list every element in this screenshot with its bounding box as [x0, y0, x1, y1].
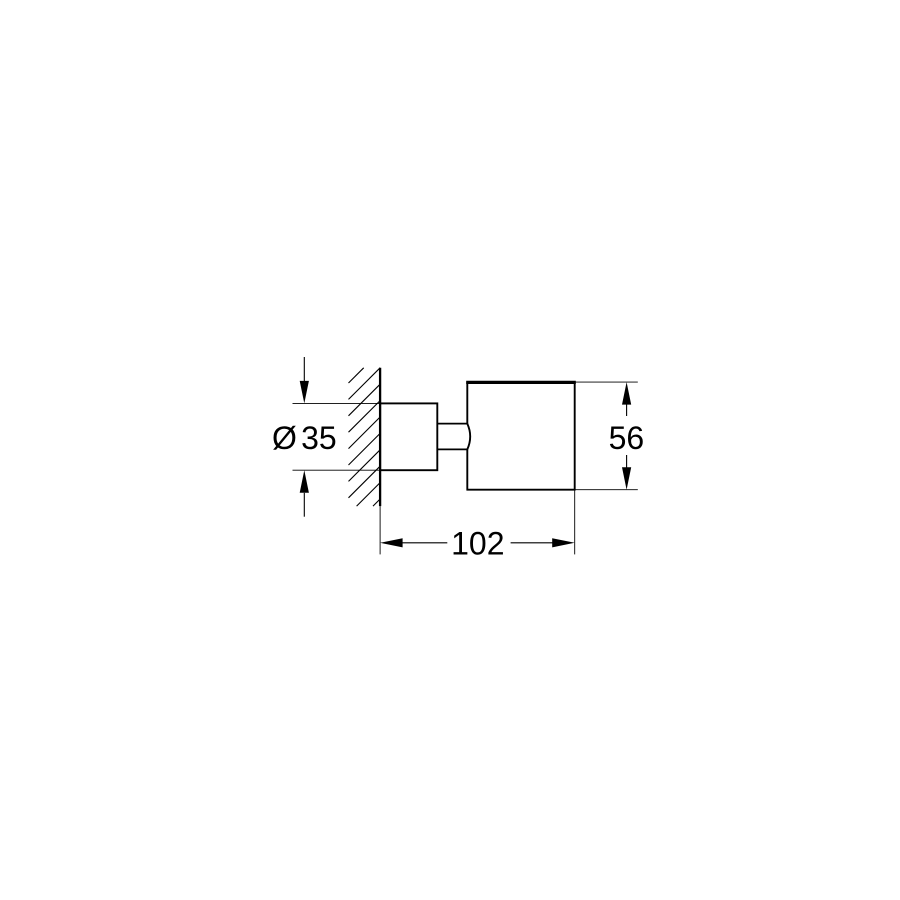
extension line dim 35 bottom: [293, 469, 381, 471]
dim 35 arrowhead top (points down): [300, 381, 309, 404]
dim 102 line right segment: [511, 542, 553, 544]
extension line dim 56 top: [575, 381, 638, 383]
dim 56 line lower segment: [626, 455, 628, 468]
extension line dim 102 left: [379, 506, 381, 554]
dim 35 arrowhead bottom (points up): [300, 470, 309, 493]
cup top rim (thick): [466, 381, 576, 384]
extension line dim 56 bottom: [575, 489, 638, 491]
dim 56 line upper segment: [626, 404, 628, 416]
wall hatching: [349, 368, 381, 506]
dim 35 arrow line bottom: [303, 493, 305, 517]
dim 102 line left segment: [402, 542, 447, 544]
neck-cup junction arc: [467, 424, 470, 450]
dim 35 arrow line top: [303, 357, 305, 382]
cup body outline: [466, 382, 575, 490]
svg-text:102: 102: [451, 526, 504, 562]
svg-text:56: 56: [609, 420, 645, 456]
flange (wall rosette): [380, 403, 437, 470]
dim 102 arrowhead left (points left): [380, 538, 403, 547]
neck top line: [437, 423, 467, 425]
svg-text:Ø35: Ø35: [272, 420, 337, 456]
dim 56 arrowhead bottom (points down): [622, 467, 631, 490]
dim 56 arrowhead top (points up): [622, 382, 631, 405]
dim 102 arrowhead right (points right): [552, 538, 575, 547]
wall line: [379, 368, 381, 506]
extension line dim 102 right: [574, 490, 576, 555]
neck bottom line: [437, 448, 467, 450]
extension line dim 35 top: [293, 402, 381, 404]
